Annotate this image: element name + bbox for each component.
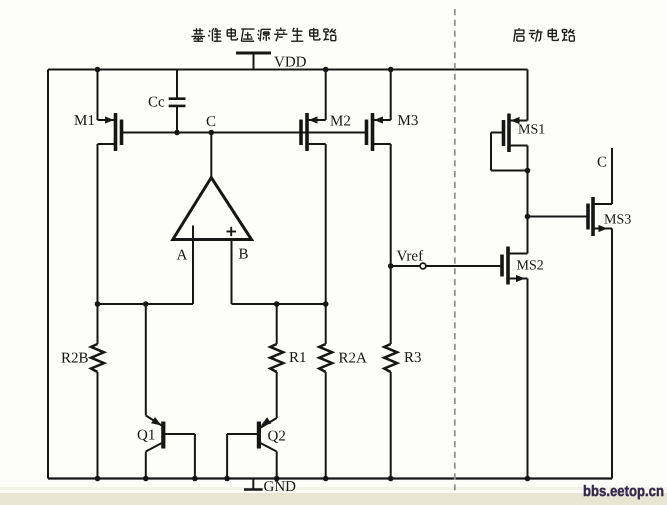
svg-text:A: A: [177, 248, 188, 264]
svg-text:R3: R3: [404, 350, 422, 366]
svg-text:Vref: Vref: [397, 249, 424, 265]
svg-text:GND: GND: [264, 479, 297, 495]
svg-text:MS1: MS1: [518, 123, 545, 138]
svg-text:MS3: MS3: [604, 213, 631, 228]
svg-text:Q2: Q2: [268, 429, 286, 445]
svg-text:Q1: Q1: [137, 428, 155, 444]
svg-text:R2A: R2A: [339, 351, 368, 367]
svg-text:B: B: [239, 247, 249, 263]
svg-text:M2: M2: [330, 114, 351, 130]
svg-text:VDD: VDD: [274, 55, 307, 71]
svg-text:R1: R1: [289, 350, 307, 366]
svg-text:C: C: [597, 155, 607, 171]
svg-text:bbs.eetop.cn: bbs.eetop.cn: [583, 483, 664, 500]
svg-text:MS2: MS2: [517, 259, 544, 274]
svg-text:M3: M3: [398, 113, 419, 129]
svg-text:Cc: Cc: [148, 95, 165, 111]
svg-text:M1: M1: [74, 113, 95, 129]
svg-text:R2B: R2B: [61, 351, 89, 367]
svg-text:C: C: [206, 114, 216, 130]
